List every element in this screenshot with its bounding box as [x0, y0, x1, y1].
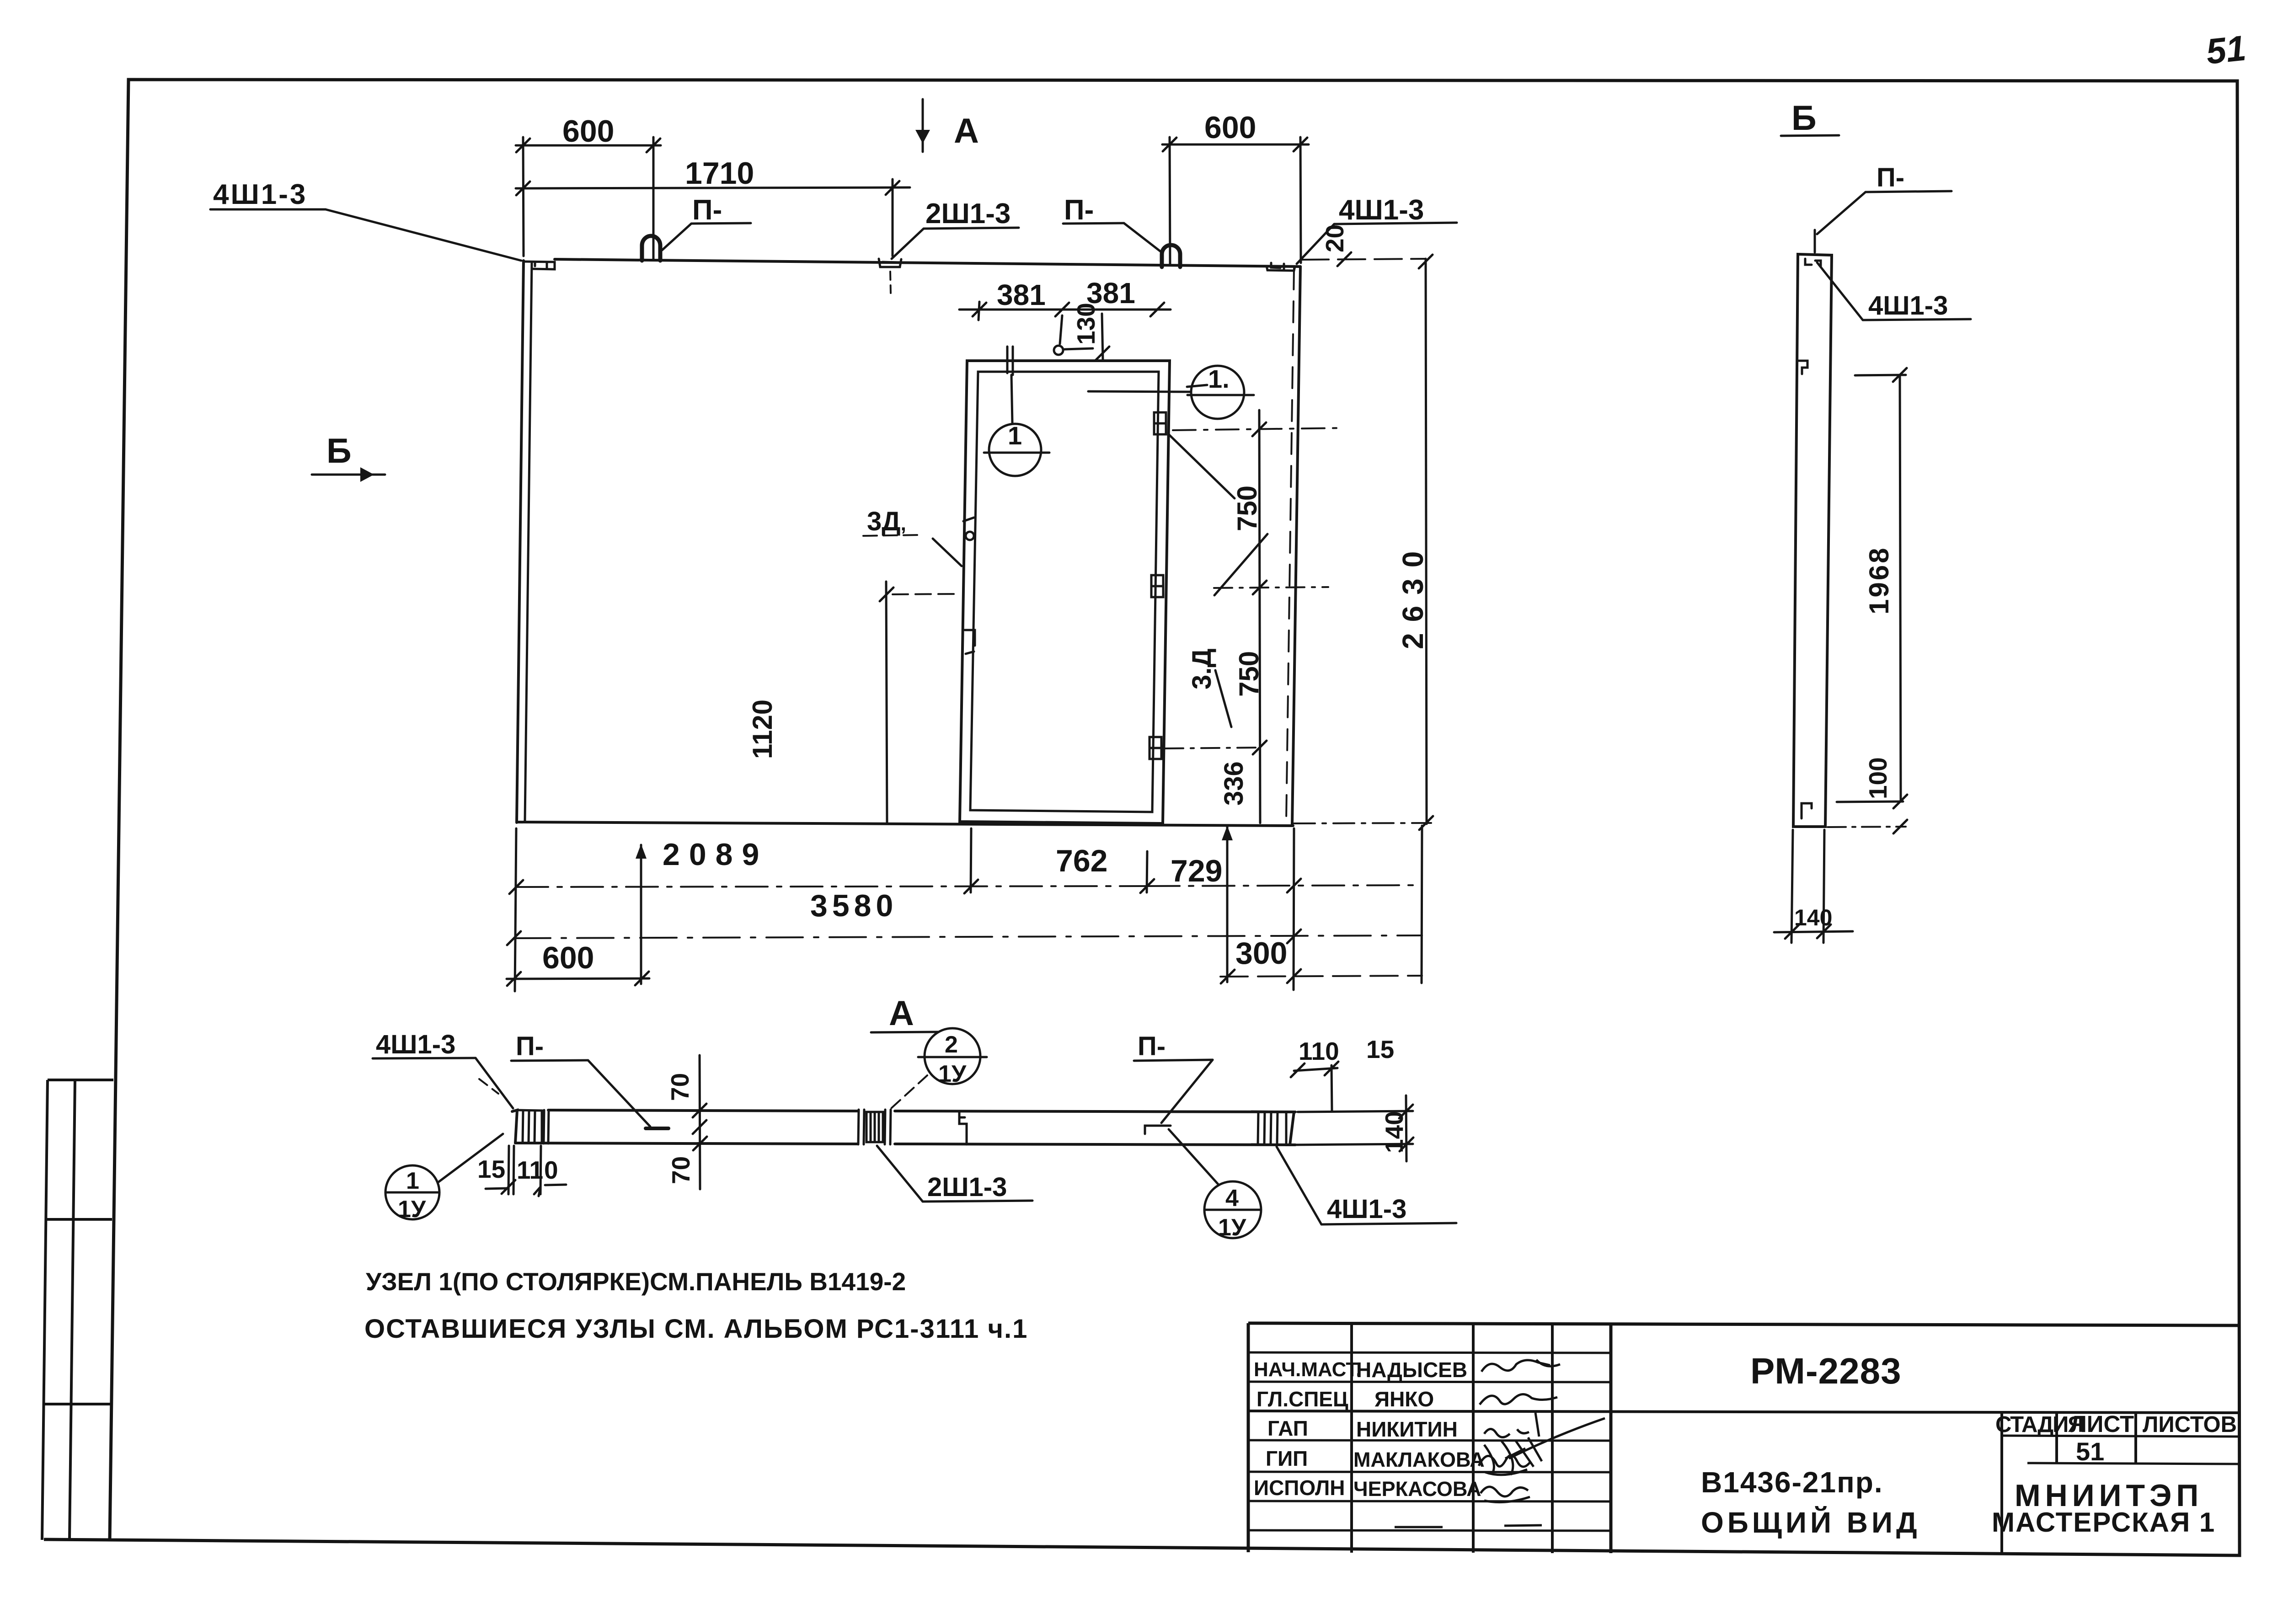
TITLEBLOCK — [1248, 1323, 2240, 1554]
svg-text:П-: П- — [1064, 194, 1094, 226]
bottom edge dash extension — [1294, 823, 1431, 823]
svg-text:70: 70 — [666, 1073, 694, 1101]
loop flat mark in bar — [646, 1127, 668, 1130]
panel top-right notch 4Sh1-3 — [1267, 263, 1295, 271]
svg-text:НАДЫСЕВ: НАДЫСЕВ — [1356, 1358, 1467, 1382]
dim 1968 top line — [1855, 375, 1906, 375]
svg-text:51: 51 — [2076, 1437, 2104, 1466]
svg-text:2: 2 — [945, 1031, 958, 1058]
svg-text:Б: Б — [326, 432, 352, 470]
small dash row7 a — [1395, 1526, 1443, 1528]
side panel bottom notch — [1802, 803, 1812, 818]
bottom extension x2830 — [1294, 828, 1294, 990]
title block outer top — [1248, 1323, 2240, 1325]
dim line 1710 — [516, 187, 910, 188]
bottom dim row1 line — [516, 886, 1148, 887]
svg-text:МАСТЕРСКАЯ 1: МАСТЕРСКАЯ 1 — [1992, 1507, 2215, 1538]
bar bottom edge right segment — [895, 1144, 1295, 1145]
bar left end cap — [512, 1110, 517, 1143]
dim 130 — [1102, 314, 1103, 360]
label 2Sh1-3 bottom underline leader — [923, 1201, 1032, 1202]
dim 20 top right — [1301, 259, 1426, 260]
svg-text:В1436-21пр.: В1436-21пр. — [1701, 1466, 1883, 1499]
signature scribble 5 — [1481, 1487, 1530, 1502]
svg-text:140: 140 — [1794, 905, 1832, 930]
svg-text:600: 600 — [562, 114, 614, 149]
signature scribble 1 — [1481, 1360, 1560, 1372]
svg-text:УЗЕЛ 1(ПО СТОЛЯРКЕ)СМ.ПАНЕЛЬ В: УЗЕЛ 1(ПО СТОЛЯРКЕ)СМ.ПАНЕЛЬ В1419-2 — [366, 1267, 906, 1296]
SIDEVIEW — [1774, 135, 1971, 943]
svg-text:750: 750 — [1234, 651, 1264, 697]
svg-text:100: 100 — [1864, 757, 1892, 799]
bottom extension x1404 with up arrow — [640, 845, 642, 984]
svg-text:300: 300 — [1235, 936, 1287, 971]
panel bottom edge — [517, 822, 1293, 826]
svg-text:ЧЕРКАСОВА: ЧЕРКАСОВА — [1353, 1477, 1481, 1501]
svg-text:3.Д: 3.Д — [1187, 648, 1217, 689]
FRONTVIEW — [210, 99, 1457, 991]
svg-text:1.: 1. — [1208, 364, 1230, 393]
stamp row line under 51 — [2027, 1463, 2240, 1464]
svg-text:ЛИСТ: ЛИСТ — [2070, 1411, 2134, 1437]
callout circle 1. right of door — [1191, 366, 1244, 419]
mid joint left double lines — [858, 1110, 859, 1144]
svg-text:729: 729 — [1171, 854, 1222, 888]
stamp column line 2 — [2134, 1412, 2137, 1464]
door hinge mark 2 right jamb — [1151, 575, 1163, 597]
callout circle 4/1U — [1204, 1181, 1261, 1238]
bottom extension x2124 — [971, 828, 971, 892]
label 4Sh1-3 right underline leader — [1321, 1223, 1456, 1224]
svg-text:1У: 1У — [938, 1061, 967, 1087]
dim 1968 vertical — [1900, 375, 1901, 801]
stamp box left edge — [2000, 1412, 2003, 1554]
svg-text:П-: П- — [1877, 163, 1904, 192]
svg-text:51: 51 — [2204, 27, 2248, 72]
svg-text:2Ш1-3: 2Ш1-3 — [925, 198, 1011, 230]
signature scribble 2 — [1480, 1394, 1557, 1405]
bottom extension x3110 — [1422, 826, 1422, 983]
lifting loop P left — [642, 236, 660, 261]
leader hinge1 diagonal — [1169, 434, 1235, 498]
svg-text:4: 4 — [1225, 1185, 1239, 1212]
door hinge mark 1 right jamb — [1154, 412, 1166, 434]
svg-text:600: 600 — [1204, 110, 1256, 145]
title row line 3 full — [1248, 1411, 2240, 1413]
lifting loop P right — [1162, 245, 1180, 267]
bar bottom edge left segment — [515, 1143, 858, 1144]
svg-text:1У: 1У — [1218, 1214, 1246, 1241]
label 4Sh1-3 top left leader — [210, 208, 326, 211]
svg-text:11: 11 — [517, 1156, 543, 1184]
svg-text:15: 15 — [477, 1155, 505, 1183]
bar top edge right segment — [895, 1111, 1295, 1112]
svg-text:ЛИСТОВ: ЛИСТОВ — [2143, 1412, 2237, 1437]
small loop joint mark — [1145, 1126, 1171, 1134]
bottom border extension under stamp strip — [44, 1539, 110, 1540]
svg-text:ГЛ.СПЕЦ: ГЛ.СПЕЦ — [1256, 1387, 1348, 1411]
dim 140 vertical — [1406, 1095, 1406, 1161]
title row line 5 — [1248, 1472, 1611, 1472]
svg-text:ОБЩИЙ ВИД: ОБЩИЙ ВИД — [1701, 1506, 1921, 1539]
small dash row7 b — [1504, 1525, 1542, 1526]
svg-text:ОСТАВШИЕСЯ УЗЛЫ СМ. АЛЬБОМ РС1: ОСТАВШИЕСЯ УЗЛЫ СМ. АЛЬБОМ РС1-3111 ч.1 — [364, 1314, 1028, 1344]
mid joint hatch block — [866, 1112, 883, 1142]
panel right edge solid — [1292, 267, 1300, 825]
bottom extension x1129 — [515, 828, 516, 991]
side panel top notch — [1805, 259, 1821, 267]
callout circle 2/1U — [925, 1028, 980, 1084]
callout circle 1 inside door — [989, 424, 1041, 476]
svg-text:ЯНКО: ЯНКО — [1374, 1387, 1434, 1411]
leader to circle 1. — [1088, 391, 1191, 392]
small circle on 381 extension — [1054, 346, 1063, 355]
dim 140 line — [1774, 931, 1853, 932]
svg-text:НАЧ.МАСТ.: НАЧ.МАСТ. — [1254, 1358, 1362, 1381]
svg-text:ГИП: ГИП — [1266, 1447, 1308, 1470]
jog step in right segment — [959, 1111, 967, 1144]
dash line hinge3 level — [1165, 748, 1262, 748]
label P- mid underline leader — [1134, 1060, 1213, 1061]
panel left edge double line — [517, 261, 524, 823]
svg-text:0: 0 — [544, 1156, 558, 1184]
stamp header underline — [2002, 1436, 2240, 1437]
signature scribble 3 — [1484, 1413, 1539, 1437]
dashes near 4Sh1-3 leader — [479, 1079, 498, 1094]
title row line 2 — [1248, 1382, 1611, 1382]
svg-text:ГАП: ГАП — [1267, 1416, 1308, 1440]
title column line d — [1609, 1324, 1613, 1553]
leader from circle 1 to door head — [1007, 347, 1013, 423]
label 2Sh1-3 leader — [924, 228, 1019, 229]
svg-text:А: А — [954, 112, 979, 150]
svg-text:2Ш1-3: 2Ш1-3 — [927, 1172, 1007, 1202]
dim chain 750 750 336 line — [1259, 410, 1260, 823]
svg-text:15: 15 — [1366, 1035, 1394, 1063]
door left jamb small marks — [963, 518, 975, 654]
callout circle 1/1U — [385, 1165, 439, 1219]
door hinge mark 3 right jamb — [1150, 737, 1161, 759]
svg-text:2630: 2630 — [1396, 540, 1429, 649]
svg-text:П-: П- — [1138, 1031, 1166, 1061]
svg-text:4Ш1-3: 4Ш1-3 — [1868, 291, 1948, 321]
title row line 4 — [1248, 1440, 1611, 1441]
extension lines right of bar — [1298, 1111, 1413, 1112]
leader 3.D upper — [1214, 534, 1267, 595]
svg-text:762: 762 — [1056, 844, 1107, 878]
svg-text:НИКИТИН: НИКИТИН — [1356, 1417, 1458, 1441]
svg-text:750: 750 — [1232, 486, 1262, 531]
bottom dash-dot line — [1828, 827, 1906, 827]
label A underline — [871, 1032, 938, 1032]
bar right end cap — [1286, 1112, 1294, 1145]
svg-text:336: 336 — [1219, 761, 1249, 806]
dim 381-381 line above door — [959, 309, 1171, 311]
svg-text:П-: П- — [516, 1031, 544, 1061]
SECTIONA — [373, 1028, 1456, 1238]
label P- side underline leader — [1866, 191, 1952, 192]
label P- top right leader — [1063, 223, 1124, 224]
svg-text:20: 20 — [1321, 224, 1349, 252]
door left jamb small circle mark — [966, 532, 974, 540]
svg-text:1: 1 — [1008, 421, 1022, 450]
svg-text:70: 70 — [667, 1156, 695, 1184]
title column line a — [1350, 1324, 1353, 1553]
dash line hinge1 level — [1173, 428, 1344, 430]
svg-text:600: 600 — [542, 940, 594, 975]
panel top edge — [555, 259, 1300, 267]
label 4Sh1-3 left underline leader — [373, 1058, 476, 1058]
label 4Sh1-3 top right leader — [1334, 223, 1457, 224]
bottom dim row2 line 3580 — [514, 935, 1422, 938]
svg-text:140: 140 — [1380, 1111, 1408, 1153]
svg-text:3580: 3580 — [810, 888, 898, 923]
svg-text:П-: П- — [692, 194, 722, 226]
dim 70 70 vertical — [700, 1055, 700, 1189]
panel right edge dashed companion — [1286, 268, 1294, 821]
svg-text:1120: 1120 — [747, 700, 778, 759]
svg-text:2089: 2089 — [663, 837, 768, 872]
title row line 6 — [1248, 1501, 1611, 1501]
dims 110 15 marks — [1294, 1068, 1337, 1071]
svg-text:СТАДИЯ: СТАДИЯ — [1995, 1412, 2083, 1437]
door opening outer rectangle — [960, 361, 1170, 823]
dash line hinge2 level — [1214, 587, 1328, 588]
title column line b — [1472, 1324, 1475, 1553]
bottom extension x2509 — [1147, 851, 1147, 892]
bar left block double line — [544, 1110, 544, 1143]
top extension line 1710 right — [892, 179, 894, 256]
left stamp strip — [42, 1080, 113, 1540]
bottom dim row3 line 600/300 — [507, 978, 649, 979]
svg-text:4Ш1-3: 4Ш1-3 — [376, 1030, 455, 1059]
side panel outline — [1793, 254, 1832, 827]
bar left hatch block — [515, 1110, 542, 1143]
section arrow B left — [312, 474, 385, 476]
title row line 1 — [1248, 1352, 1611, 1353]
dim line 600 top left — [516, 144, 661, 147]
extension lines for 140 — [1791, 830, 1793, 943]
svg-text:4Ш1-3: 4Ш1-3 — [1339, 194, 1424, 226]
door opening inner rectangle — [970, 372, 1159, 812]
bar right hatch block — [1251, 1111, 1286, 1145]
signature scribble 4 — [1479, 1437, 1542, 1475]
svg-text:4Ш1-3: 4Ш1-3 — [213, 179, 307, 210]
mid top joint notch 2Sh1-3 — [879, 259, 901, 267]
svg-text:381: 381 — [997, 278, 1046, 311]
dim 1120 vertical line — [886, 582, 887, 823]
svg-text:4Ш1-3: 4Ш1-3 — [1327, 1194, 1406, 1224]
dim 100 line — [1837, 801, 1903, 802]
mid joint right double lines — [885, 1110, 885, 1144]
section arrow A top — [922, 99, 924, 152]
P- pin on top — [1814, 230, 1816, 252]
leader 3.D lower — [1215, 670, 1231, 727]
top extension line 600 right a — [1170, 137, 1170, 265]
dim 2630 vertical — [1426, 259, 1427, 824]
svg-text:3Д,: 3Д, — [867, 507, 906, 536]
top extension line 600 left — [652, 137, 655, 260]
label 4Sh1-3 side underline leader — [1863, 319, 1971, 320]
svg-text:МАКЛАКОВА: МАКЛАКОВА — [1353, 1448, 1485, 1471]
title block left edge — [1247, 1323, 1250, 1552]
dims 15 11 0 vertical marks — [508, 1146, 509, 1194]
svg-text:110: 110 — [1299, 1037, 1339, 1065]
label 3D top with leader — [863, 535, 920, 536]
title column line c — [1551, 1324, 1554, 1553]
top extension line left corner — [523, 137, 524, 256]
label P- top left leader — [691, 223, 751, 224]
panel top-left notch 4Sh1-3 — [524, 262, 555, 269]
svg-text:РМ-2283: РМ-2283 — [1750, 1351, 1902, 1391]
bar top edge left segment — [548, 1110, 858, 1111]
svg-text:1710: 1710 — [685, 156, 754, 191]
svg-text:ИСПОЛН: ИСПОЛН — [1254, 1476, 1345, 1500]
stamp column line 1 — [2055, 1412, 2058, 1464]
extension door top left — [978, 302, 979, 320]
dim line 600 top right — [1162, 144, 1309, 146]
signature flourish — [1484, 1418, 1605, 1475]
svg-text:Б: Б — [1791, 99, 1817, 138]
side panel mid notch — [1799, 361, 1807, 374]
top extension line right corner — [1300, 137, 1301, 263]
label B underline — [1781, 135, 1839, 136]
bottom extension x2685 with up arrow — [1226, 826, 1229, 982]
svg-text:1968: 1968 — [1864, 546, 1894, 614]
svg-text:130: 130 — [1072, 303, 1100, 345]
svg-text:А: А — [889, 994, 914, 1033]
svg-text:1: 1 — [406, 1168, 419, 1194]
dash mark under mid joint — [890, 272, 891, 293]
label P- left underline leader — [511, 1060, 588, 1061]
title row line 7 — [1248, 1530, 1611, 1531]
svg-text:1У: 1У — [398, 1196, 426, 1223]
small marks at door head leader — [1187, 385, 1207, 387]
